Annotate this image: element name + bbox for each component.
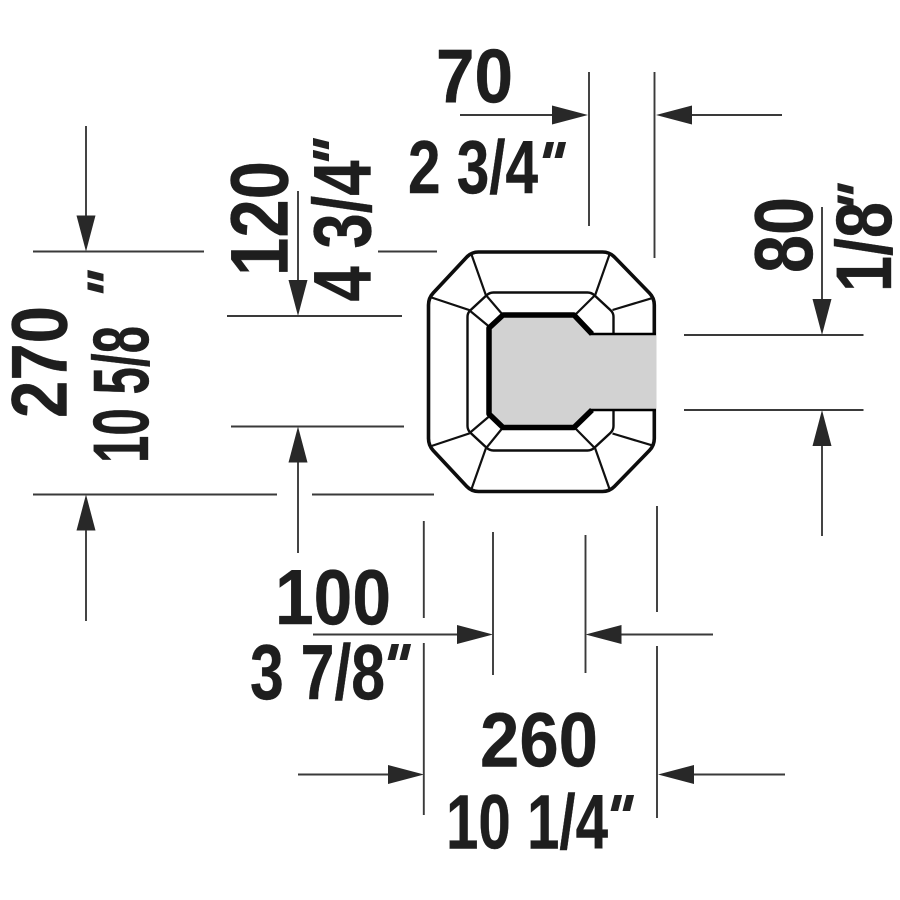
svg-text:260: 260: [480, 698, 598, 784]
svg-text:120: 120: [215, 161, 306, 276]
dim 100 right arrowhead: [586, 625, 622, 644]
dim 270 top arrowhead: [77, 216, 96, 252]
corner edge top-left upper: [472, 255, 503, 315]
dim 120 bottom arrowhead: [289, 427, 308, 463]
svg-text:270: 270: [0, 306, 84, 418]
inch mark for 10 1/4: [611, 795, 635, 811]
corner edge bottom-right lower: [575, 428, 610, 489]
dim 260 left arrow line: [298, 774, 388, 776]
dim 100 left arrow line: [313, 634, 457, 636]
outer octagon body: [429, 252, 655, 492]
dim 100 extension line left: [492, 532, 494, 675]
svg-text:2 3/4: 2 3/4: [408, 125, 538, 209]
dim 70 left arrowhead: [552, 106, 588, 125]
inch mark for 2 3/4: [543, 142, 567, 158]
dim 70 right arrowhead: [656, 106, 692, 125]
svg-text:3 7/8: 3 7/8: [250, 628, 385, 716]
dim 80 bottom arrowhead: [813, 410, 832, 446]
svg-text:10 5/8: 10 5/8: [76, 326, 165, 463]
dim 80 bottom arrow shaft: [821, 446, 823, 536]
outlet channel bottom line: [591, 409, 656, 412]
inch mark for 3 7/8: [388, 644, 412, 660]
dim 70 left arrow line: [460, 114, 553, 116]
dim 100 right arrow line: [622, 634, 714, 636]
dim 80 top arrow shaft: [821, 207, 823, 299]
corner edge top-right lower: [613, 298, 654, 310]
inch mark for 4 3/4: [313, 138, 329, 162]
dim 120 bottom arrow shaft: [297, 463, 299, 554]
dim 270 bottom arrowhead: [77, 495, 96, 531]
dim 260 extension line left: [423, 521, 425, 815]
inch mark for 10 5/8: [88, 270, 104, 294]
svg-text:4 3/4: 4 3/4: [298, 160, 389, 301]
dim 120 top arrow shaft: [297, 191, 299, 281]
dim 270 bottom arrow shaft: [85, 530, 87, 621]
dim 260 left arrowhead: [388, 765, 424, 784]
dim 70 extension line left: [588, 72, 590, 226]
corner edge bottom-left upper: [430, 417, 489, 447]
dim 80 top arrowhead: [813, 299, 832, 335]
dim 80 top extension line: [684, 334, 864, 336]
svg-text:10 1/4: 10 1/4: [446, 780, 608, 866]
inch mark for 1/8: [838, 183, 854, 207]
dim 260 extension line right: [656, 506, 658, 818]
dim 260 right arrow line: [694, 774, 785, 776]
corner edge top-left lower: [430, 297, 489, 327]
dim 260 right arrowhead: [658, 765, 694, 784]
dim 120 top arrowhead: [289, 280, 308, 316]
corner edge bottom-left lower: [472, 428, 503, 489]
dim 120 bottom extension line: [231, 426, 404, 428]
dim 270 bottom extension line: [33, 494, 434, 496]
svg-text:70: 70: [436, 35, 513, 120]
dim 120 top extension line: [227, 315, 402, 317]
svg-text:80: 80: [737, 197, 830, 273]
outlet channel top line: [591, 333, 656, 336]
corner edge bottom-right upper: [613, 434, 654, 446]
dim 70 right arrow line: [692, 114, 782, 116]
svg-text:1/8: 1/8: [819, 202, 900, 292]
corner edge top-right upper: [575, 255, 610, 316]
inner octagon face: [468, 293, 614, 451]
waste outlet thick outline: [489, 315, 592, 428]
dim 270 top extension line: [33, 251, 437, 253]
dim 270 top arrow shaft: [85, 126, 87, 217]
dim 100 left arrowhead: [457, 625, 493, 644]
dim 70 extension line right: [654, 72, 656, 258]
dim 100 extension line right: [585, 535, 587, 673]
grey waste outlet fill: [489, 315, 657, 428]
dim 80 bottom extension line: [684, 409, 864, 411]
